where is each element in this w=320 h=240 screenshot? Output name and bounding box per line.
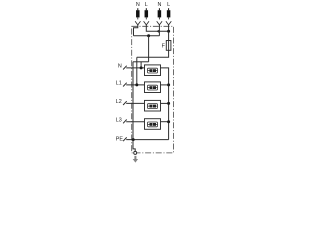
SPD module 3 (L2) outer box (145, 100, 161, 111)
wire fuse feed (168, 31, 170, 40)
wire col1 to left riser (134, 25, 138, 36)
plug-in connector arrow col1 (135, 17, 140, 25)
wire col3 riser (158, 25, 160, 36)
node dot N row (141.1,67.9) (140, 66, 143, 69)
wire N1 bus horizontal y35.8 (134, 35, 160, 37)
node dot bus L1 (167, 83, 170, 86)
SPD module 2 (L1) outer box (145, 82, 161, 93)
node dot bus L3 (167, 120, 170, 123)
terminal X2 (col2 L) (145, 8, 149, 17)
node junction dot (148.6,35.8) (147, 34, 150, 37)
SPD module 3 arrester symbol (148, 104, 158, 109)
wire N row riser (140, 62, 142, 68)
terminal X1 (col1 N) (136, 8, 140, 17)
svg-text:L3: L3 (116, 117, 122, 123)
node dot PE row (133.2,139.6) (132, 138, 135, 141)
wire riser from node 35.8 down (148, 36, 150, 62)
wire L1 row (126, 84, 144, 86)
disconnect slash L2 row (123, 101, 127, 105)
svg-text:L1: L1 (116, 81, 122, 87)
SPD module 1 arrester symbol (148, 68, 158, 73)
earth connection circle on enclosure (134, 151, 137, 154)
svg-text:L2: L2 (116, 99, 122, 105)
node junction dot fuse top (168.6,31.3) (167, 30, 170, 33)
wire PE row (126, 139, 168, 141)
node dot L1 row (137,84.9) (135, 83, 138, 86)
plug arrow on col3 riser (156, 30, 159, 33)
SPD module 2 arrester symbol (148, 85, 158, 90)
SPD module 1 (N) outer box (145, 65, 161, 76)
svg-text:PE: PE (116, 136, 124, 142)
disconnect slash L3 row (123, 120, 127, 124)
plug-in connector arrow col2 (144, 17, 149, 25)
disconnect slash N row (123, 66, 127, 70)
wire L2 row (126, 102, 144, 104)
disconnect slash PE row (123, 137, 127, 141)
wire L3 row (126, 121, 144, 123)
wire module1 out to bus (160, 68, 168, 140)
ground arrow (133, 156, 138, 163)
wire drop to L1 node (136, 57, 138, 85)
wire PE long drop (132, 62, 134, 140)
terminal X4 (col4 L) (167, 8, 171, 17)
svg-text:N: N (157, 2, 161, 8)
fuse F body (166, 41, 171, 51)
svg-text:N: N (118, 64, 122, 70)
node dot bus L2 (167, 102, 170, 105)
disconnect slash L1 row (123, 83, 127, 87)
svg-text:F: F (162, 44, 166, 50)
plug-in connector arrow col3 (157, 17, 162, 25)
wire N row (126, 67, 144, 69)
plug-in connector arrow col4 (166, 17, 171, 25)
enclosure dash-dot box (132, 26, 174, 153)
svg-text:L: L (167, 2, 170, 8)
wire module4 out to bus (160, 121, 168, 123)
svg-text:N: N (136, 2, 140, 8)
fuse F internal wire (168, 41, 170, 51)
wire col4 drop (168, 25, 170, 32)
wire module2 out to bus (160, 84, 168, 86)
terminal X3 (col3 N) (158, 8, 162, 17)
SPD module 4 (L3) outer box (145, 119, 161, 130)
wire col2 riser and jog to fuse node (146, 25, 168, 32)
svg-text:L: L (145, 2, 148, 8)
wire fuse bottom return y57.3 (137, 50, 169, 57)
wire PE exit drop (133, 140, 135, 152)
wire module3 out to bus (160, 102, 168, 104)
SPD module 4 arrester symbol (148, 122, 158, 127)
wire link horizontal y61.8 (133, 61, 149, 63)
